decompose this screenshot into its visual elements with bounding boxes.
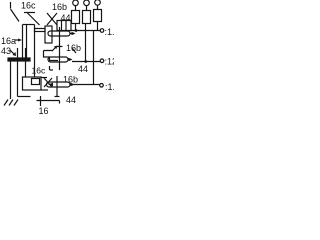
- svg-text:16a: 16a: [1, 36, 16, 46]
- svg-text:16b: 16b: [63, 75, 78, 85]
- svg-text:44: 44: [61, 13, 71, 23]
- svg-text::1.: :1.: [105, 27, 115, 37]
- svg-text::1.: :1.: [105, 82, 114, 92]
- svg-text:16: 16: [39, 106, 49, 116]
- svg-text:16b: 16b: [52, 2, 67, 12]
- svg-text:44: 44: [78, 64, 88, 74]
- svg-text::12: :12: [105, 57, 115, 67]
- svg-text:43: 43: [1, 46, 11, 56]
- svg-text:16b: 16b: [66, 43, 81, 53]
- svg-text:16c: 16c: [32, 66, 46, 76]
- svg-text:16c: 16c: [21, 1, 36, 11]
- svg-text:44: 44: [66, 95, 76, 105]
